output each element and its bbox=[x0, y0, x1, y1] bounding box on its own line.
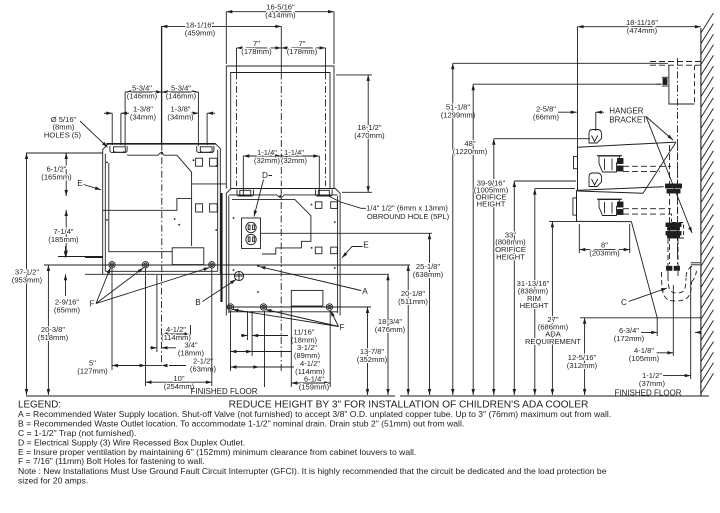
upper supply dashed lines bbox=[623, 165, 671, 167]
dimension 1-3/8 inch right bbox=[190, 112, 198, 114]
hanger bracket leader 1 bbox=[646, 117, 673, 141]
dimension 20-3/8 inch bbox=[47, 265, 49, 395]
dimension 7 inch left bbox=[237, 47, 282, 49]
C leader bbox=[629, 288, 668, 302]
hole note leader bbox=[80, 121, 108, 147]
svg-text:(185mm): (185mm) bbox=[48, 235, 79, 244]
svg-text:(1220mm): (1220mm) bbox=[453, 147, 488, 156]
duplex receptacle lower bbox=[246, 234, 256, 244]
lower cooler bottom bbox=[577, 220, 632, 222]
right plate louver cutout bbox=[291, 290, 323, 306]
right plate knockout square bbox=[331, 202, 338, 209]
lower wall anchor bolts bbox=[672, 225, 677, 229]
left plate hanger slot (left) bbox=[110, 146, 127, 153]
left plate hanger slot (right) bbox=[197, 146, 214, 153]
left plate bolt hole 1 bbox=[109, 262, 115, 268]
left plate inner bottom edge bbox=[105, 270, 217, 272]
left plate knockout square bbox=[210, 204, 218, 212]
right plate bolt hole 2 bbox=[260, 304, 266, 310]
cabinet centerline bbox=[280, 73, 282, 187]
lower cooler top bbox=[577, 187, 664, 191]
left plate knockout square bbox=[196, 204, 203, 212]
dimension 2-5/8 inch bbox=[558, 111, 577, 113]
dimension 25-1/8 inch bbox=[429, 233, 431, 395]
lower wall bracket dashed bbox=[673, 223, 684, 239]
left plate edge dots bbox=[106, 162, 108, 164]
bolt row reference line left bbox=[44, 264, 410, 266]
reference line 27 ADA bbox=[549, 220, 578, 222]
waste outlet circle B bbox=[234, 271, 243, 280]
dimension 4-1/8 inch bbox=[657, 352, 674, 354]
wall section with hatching bbox=[700, 28, 702, 396]
svg-text:(312mm): (312mm) bbox=[567, 361, 598, 370]
children's cooler cabinet inner lines bbox=[231, 73, 330, 189]
svg-text:(178mm): (178mm) bbox=[287, 47, 318, 56]
lower bubbler assembly bbox=[599, 200, 620, 216]
upper wall anchor bolt bbox=[663, 79, 667, 85]
dimension 4-1/2 inch left bbox=[162, 333, 191, 335]
dimension 31-13/16 inch rim height bbox=[534, 189, 536, 395]
right plate bolt hole 3 bbox=[326, 304, 332, 310]
svg-text:(34mm): (34mm) bbox=[130, 112, 157, 121]
hanger bracket leader 2 bbox=[646, 117, 692, 234]
svg-text:HEIGHT: HEIGHT bbox=[496, 253, 525, 262]
dimension 18-1/2 inch bbox=[367, 75, 369, 192]
trap union nut bbox=[667, 266, 672, 270]
left plate bolt hole 3 bbox=[209, 262, 215, 268]
left plate recess contour bbox=[177, 155, 192, 246]
left plate stepped contour bbox=[103, 199, 192, 211]
dimension 1-3/8 inch left bbox=[104, 112, 112, 114]
upper wall bracket outline bbox=[669, 65, 695, 104]
dimension 39-9/16 inch orifice height bbox=[493, 139, 495, 395]
dimension 48 inch bbox=[472, 84, 474, 395]
left plate knockout square bbox=[196, 158, 203, 166]
svg-text:BRACKET: BRACKET bbox=[609, 115, 647, 124]
svg-text:(414mm): (414mm) bbox=[265, 10, 296, 19]
dimension 2-9/16 inch bbox=[65, 246, 67, 258]
svg-text:(638mm): (638mm) bbox=[413, 270, 444, 279]
dimension 8 inch bbox=[579, 249, 629, 251]
left plate bolt hole 2 bbox=[142, 262, 148, 268]
dimension 12-5/16 inch bbox=[584, 318, 586, 395]
children's cooler cabinet outline bbox=[226, 66, 334, 189]
svg-text:(203mm): (203mm) bbox=[589, 248, 620, 257]
reference line 12-5/16 bbox=[580, 317, 701, 319]
lower bubbler clamps bbox=[618, 202, 624, 207]
left plate knockout square bbox=[210, 158, 218, 166]
dimension 6-1/2 inch bbox=[65, 153, 67, 196]
svg-text:F = 7/16" (11mm) Bolt Holes fo: F = 7/16" (11mm) Bolt Holes for fastenin… bbox=[18, 456, 205, 466]
left plate centerline bbox=[161, 144, 163, 275]
louver top reference line bbox=[85, 257, 103, 259]
B leader bbox=[203, 280, 237, 302]
dimension 13-7/8 inch bbox=[367, 307, 369, 395]
svg-text:(105mm): (105mm) bbox=[629, 354, 660, 363]
svg-text:sized for 20 amps.: sized for 20 amps. bbox=[18, 475, 88, 485]
oblound hole leader bbox=[328, 196, 367, 209]
dimension 3-1/2 inch bbox=[231, 351, 253, 353]
cabinet hanger bolt centerline left bbox=[236, 73, 238, 187]
svg-text:Note : New Installations Must: Note : New Installations Must Use Ground… bbox=[18, 466, 607, 476]
electrical outlet box D bbox=[242, 218, 261, 249]
right plate bolt row reference line bbox=[226, 306, 371, 308]
trap dashed outline C bbox=[668, 276, 686, 293]
right plate knockout square bbox=[315, 202, 322, 209]
dimension 5-3/4 inch left bbox=[125, 91, 162, 93]
svg-text:(172mm): (172mm) bbox=[614, 334, 645, 343]
trap tailpiece dashed walls bbox=[667, 239, 669, 276]
upper hanger bracket hook bbox=[589, 130, 602, 144]
upper hanger dashed lines on wall bbox=[650, 61, 701, 63]
dimension 6-1/4 inch bbox=[291, 382, 330, 384]
svg-text:(18mm): (18mm) bbox=[178, 348, 205, 357]
upper cooler front button bbox=[574, 156, 578, 168]
cabinet hanger bolt centerline right bbox=[325, 73, 327, 187]
right plate edge dots bbox=[233, 217, 235, 219]
svg-text:E: E bbox=[77, 179, 83, 188]
dimension 27 inch ADA requirement bbox=[551, 221, 553, 395]
lower cooler front button bbox=[573, 198, 577, 215]
dimension 51-1/8 inch bbox=[452, 63, 454, 395]
svg-text:(165mm): (165mm) bbox=[41, 172, 72, 181]
dimension 3/4 inch bbox=[162, 347, 177, 349]
dimension 33 inch orifice height bbox=[513, 181, 515, 395]
svg-text:(470mm): (470mm) bbox=[354, 131, 385, 140]
duplex receptacle upper bbox=[246, 222, 256, 232]
svg-text:REQUIREMENT: REQUIREMENT bbox=[525, 337, 581, 346]
dimension 11/16 inch bbox=[252, 335, 288, 337]
svg-text:(32mm): (32mm) bbox=[281, 156, 308, 165]
extension line outlet height bbox=[261, 232, 432, 234]
dimension 37-1/2 inch bbox=[26, 153, 28, 395]
dark separation edge between plates bbox=[220, 193, 222, 302]
svg-text:FINISHED FLOOR: FINISHED FLOOR bbox=[190, 387, 257, 396]
dimension 7-1/4 inch bbox=[65, 210, 67, 257]
svg-text:(459mm): (459mm) bbox=[185, 28, 216, 37]
svg-text:(511mm): (511mm) bbox=[398, 297, 428, 306]
right plate hanger slot (left) bbox=[237, 190, 254, 197]
pipe union upper bbox=[666, 184, 682, 188]
dimension 18-11/16 inch from wall bbox=[578, 26, 701, 28]
E right leader bbox=[342, 247, 363, 258]
lower supply dashed lines bbox=[623, 208, 671, 210]
F left leaders bbox=[96, 268, 111, 304]
svg-text:C: C bbox=[621, 298, 627, 307]
svg-text:(63mm): (63mm) bbox=[190, 364, 217, 373]
drain stub escutcheon at wall bbox=[691, 262, 700, 264]
upper bubbler assembly bbox=[599, 156, 620, 172]
svg-text:(178mm): (178mm) bbox=[241, 47, 272, 56]
upper bubbler clamps bbox=[618, 159, 624, 164]
right plate knockout square bbox=[315, 247, 322, 254]
svg-text:(352mm): (352mm) bbox=[357, 355, 388, 364]
svg-text:(127mm): (127mm) bbox=[77, 366, 108, 375]
svg-text:(1299mm): (1299mm) bbox=[441, 110, 476, 119]
svg-text:(32mm): (32mm) bbox=[254, 156, 281, 165]
right plate centerline bbox=[280, 189, 282, 373]
dimension 6-3/4 inch bbox=[641, 331, 657, 333]
reference line 48 hanger bbox=[473, 83, 661, 85]
floor line (side view) bbox=[400, 395, 709, 397]
svg-text:HEIGHT: HEIGHT bbox=[477, 200, 506, 209]
dimension 1-1/4 inch right bbox=[281, 155, 319, 157]
upper cooler top bbox=[578, 142, 676, 147]
floor line (front views) bbox=[26, 395, 395, 397]
dimension 16-5/16 inch top bbox=[226, 11, 334, 13]
reference line 33 orifice bbox=[514, 180, 576, 182]
hanger bolt centerline bbox=[677, 58, 679, 260]
svg-text:HOLES (5): HOLES (5) bbox=[44, 130, 82, 139]
svg-text:(476mm): (476mm) bbox=[375, 325, 406, 334]
svg-text:(474mm): (474mm) bbox=[627, 26, 658, 35]
svg-text:(34mm): (34mm) bbox=[167, 112, 194, 121]
right plate stepped contour bbox=[232, 200, 311, 254]
D leader bbox=[254, 176, 272, 217]
left mounting plate outline bbox=[103, 144, 221, 274]
left plate louver cutout bbox=[172, 248, 204, 265]
dimension 1-1/4 inch left bbox=[243, 155, 281, 157]
svg-text:(146mm): (146mm) bbox=[127, 91, 158, 100]
F right leaders bbox=[233, 310, 339, 327]
dimension 18-3/4 inch bbox=[387, 274, 389, 395]
lower cooler back taper bbox=[631, 222, 657, 318]
dimension 2-1/2 inch bbox=[146, 365, 162, 367]
plate bottom reference line bbox=[85, 273, 389, 275]
drain pipe dashed vertical bbox=[669, 145, 671, 264]
water supply point A bbox=[257, 265, 259, 267]
supply elbow dashes bbox=[660, 214, 672, 222]
svg-text:(37mm): (37mm) bbox=[639, 379, 666, 388]
svg-text:B: B bbox=[195, 298, 201, 307]
svg-text:(953mm): (953mm) bbox=[12, 275, 43, 284]
upper cooler underside taper bbox=[643, 143, 676, 194]
svg-text:(518mm): (518mm) bbox=[38, 333, 69, 342]
E left leader bbox=[84, 185, 102, 190]
reference line 39-9/16 orifice bbox=[494, 138, 590, 140]
right plate inner top line with notch bbox=[229, 195, 338, 197]
dimension 20-1/8 inch bbox=[407, 265, 409, 395]
dimension 1-1/2 inch bbox=[663, 375, 691, 377]
right plate knockout square bbox=[331, 247, 338, 254]
svg-text:OBROUND HOLE (5PL): OBROUND HOLE (5PL) bbox=[367, 212, 450, 221]
svg-text:(65mm): (65mm) bbox=[54, 305, 81, 314]
hidden edge between plates bbox=[192, 183, 227, 185]
svg-text:(66mm): (66mm) bbox=[533, 113, 560, 122]
right mounting plate outline bbox=[226, 189, 340, 316]
reference line 31-13/16 rim bbox=[535, 188, 575, 190]
right plate inner bottom edge bbox=[229, 311, 338, 313]
upper cooler bottom bbox=[578, 191, 644, 193]
right plate inner outline bbox=[228, 196, 230, 313]
svg-text:F: F bbox=[89, 299, 94, 308]
svg-text:(159mm): (159mm) bbox=[299, 382, 330, 391]
right plate bolt hole 1 bbox=[227, 304, 233, 310]
svg-text:FINISHED FLOOR: FINISHED FLOOR bbox=[614, 388, 681, 397]
dimension 10 inch bbox=[146, 381, 212, 383]
dimension 18-1/16 inch bbox=[161, 25, 281, 27]
svg-text:HEIGHT: HEIGHT bbox=[520, 301, 549, 310]
right plate hanger slot (right) bbox=[316, 190, 333, 197]
svg-text:F: F bbox=[339, 323, 344, 332]
reference line 51-1/8 top bbox=[453, 62, 668, 64]
dimension 4-1/2 inch right bbox=[231, 366, 260, 368]
left plate center keyhole notch bbox=[127, 153, 177, 155]
dimension 7 inch right bbox=[281, 47, 325, 49]
dimension 5 inch bbox=[112, 365, 146, 367]
lower hanger bracket hook bbox=[589, 173, 602, 187]
lower cooler front bbox=[576, 190, 578, 221]
upper cooler front bbox=[577, 147, 579, 191]
left plate inner outline bbox=[104, 154, 106, 272]
svg-text:(146mm): (146mm) bbox=[166, 91, 197, 100]
svg-text:D: D bbox=[262, 171, 268, 180]
dimension 5-3/4 inch right bbox=[162, 91, 199, 93]
pipe union mid pair bbox=[666, 223, 681, 227]
A leader bbox=[260, 267, 362, 291]
svg-text:E: E bbox=[363, 240, 369, 249]
trap outlet bend to wall bbox=[686, 266, 693, 277]
svg-text:A: A bbox=[362, 287, 368, 296]
svg-text:HANGER: HANGER bbox=[609, 107, 643, 116]
